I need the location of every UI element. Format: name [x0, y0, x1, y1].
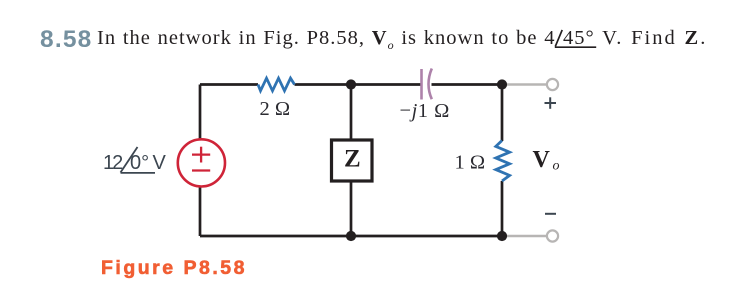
svg-text:1 Ω: 1 Ω — [455, 152, 486, 174]
svg-text:Z: Z — [344, 145, 361, 172]
svg-text:V: V — [533, 147, 551, 173]
svg-text:o: o — [553, 159, 560, 174]
svg-text:12: 12 — [103, 152, 123, 174]
svg-text:2 Ω: 2 Ω — [260, 98, 291, 120]
svg-text:V: V — [153, 152, 167, 174]
svg-text:−j1 Ω: −j1 Ω — [400, 100, 450, 122]
